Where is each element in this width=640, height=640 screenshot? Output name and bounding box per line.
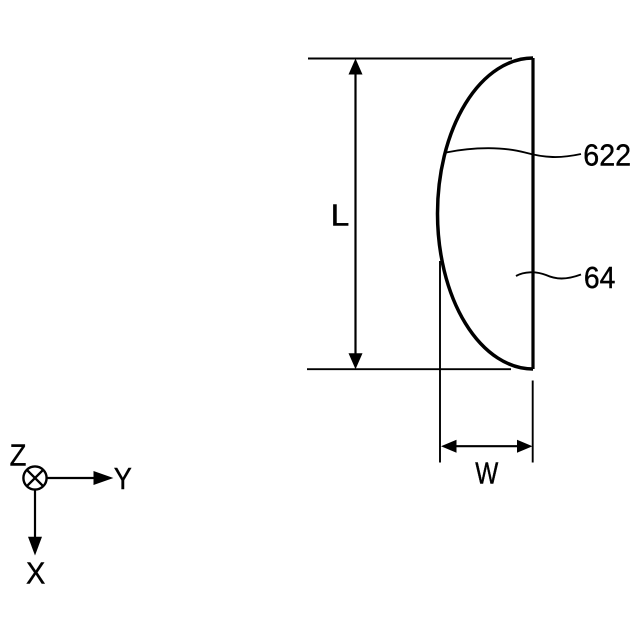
Y axis arrowhead bbox=[94, 471, 114, 485]
extension line top (L) bbox=[308, 58, 512, 60]
extension line W right bbox=[532, 381, 534, 463]
svg-text:Z: Z bbox=[10, 439, 27, 473]
svg-text:Y: Y bbox=[114, 463, 132, 497]
arrowhead W left bbox=[441, 440, 457, 453]
extension line bottom (L) bbox=[307, 368, 511, 370]
leader line 64 bbox=[516, 272, 581, 278]
svg-text:64: 64 bbox=[584, 261, 616, 295]
arrowhead L bottom bbox=[349, 353, 363, 369]
svg-text:X: X bbox=[26, 557, 45, 591]
svg-text:L: L bbox=[331, 198, 350, 232]
svg-text:W: W bbox=[475, 456, 498, 490]
extension line W left bbox=[439, 261, 441, 463]
lens body 64 flat right edge bbox=[531, 58, 534, 369]
leader line 622 bbox=[446, 148, 581, 157]
svg-text:622: 622 bbox=[583, 139, 631, 173]
lens curved surface 622 (elliptical arc) bbox=[438, 58, 534, 369]
dimension line W bbox=[446, 445, 527, 447]
Y axis line bbox=[47, 477, 96, 479]
arrowhead W right bbox=[517, 440, 533, 453]
X axis line bbox=[34, 490, 36, 539]
X axis arrowhead bbox=[28, 537, 42, 556]
Z-axis symbol circle bbox=[23, 466, 46, 489]
Z-axis symbol cross bbox=[27, 470, 43, 486]
dimension line L bbox=[354, 64, 356, 364]
arrowhead L top bbox=[349, 59, 363, 75]
